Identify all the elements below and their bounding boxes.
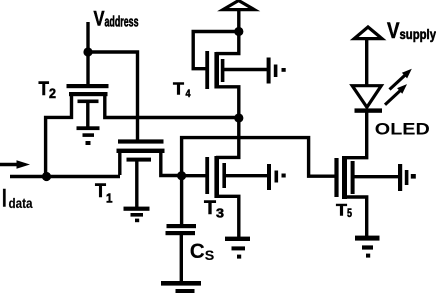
svg-text:C: C [190, 240, 205, 263]
svg-text:V: V [94, 7, 106, 31]
svg-text:address: address [105, 14, 139, 30]
svg-text:T: T [336, 200, 348, 219]
svg-text:supply: supply [400, 27, 436, 42]
svg-text:5: 5 [347, 206, 352, 220]
svg-text:data: data [9, 196, 33, 211]
svg-text:4: 4 [186, 88, 192, 100]
svg-text:T: T [173, 79, 184, 99]
svg-text:OLED: OLED [375, 119, 430, 138]
svg-text:2: 2 [49, 86, 56, 101]
svg-text:3: 3 [216, 206, 224, 221]
svg-text:T: T [204, 197, 216, 219]
svg-text:1: 1 [106, 191, 113, 206]
svg-text:V: V [387, 18, 400, 43]
svg-text:I: I [2, 185, 7, 213]
svg-text:S: S [205, 248, 215, 263]
svg-text:T: T [39, 79, 50, 100]
svg-text:T: T [95, 180, 106, 202]
